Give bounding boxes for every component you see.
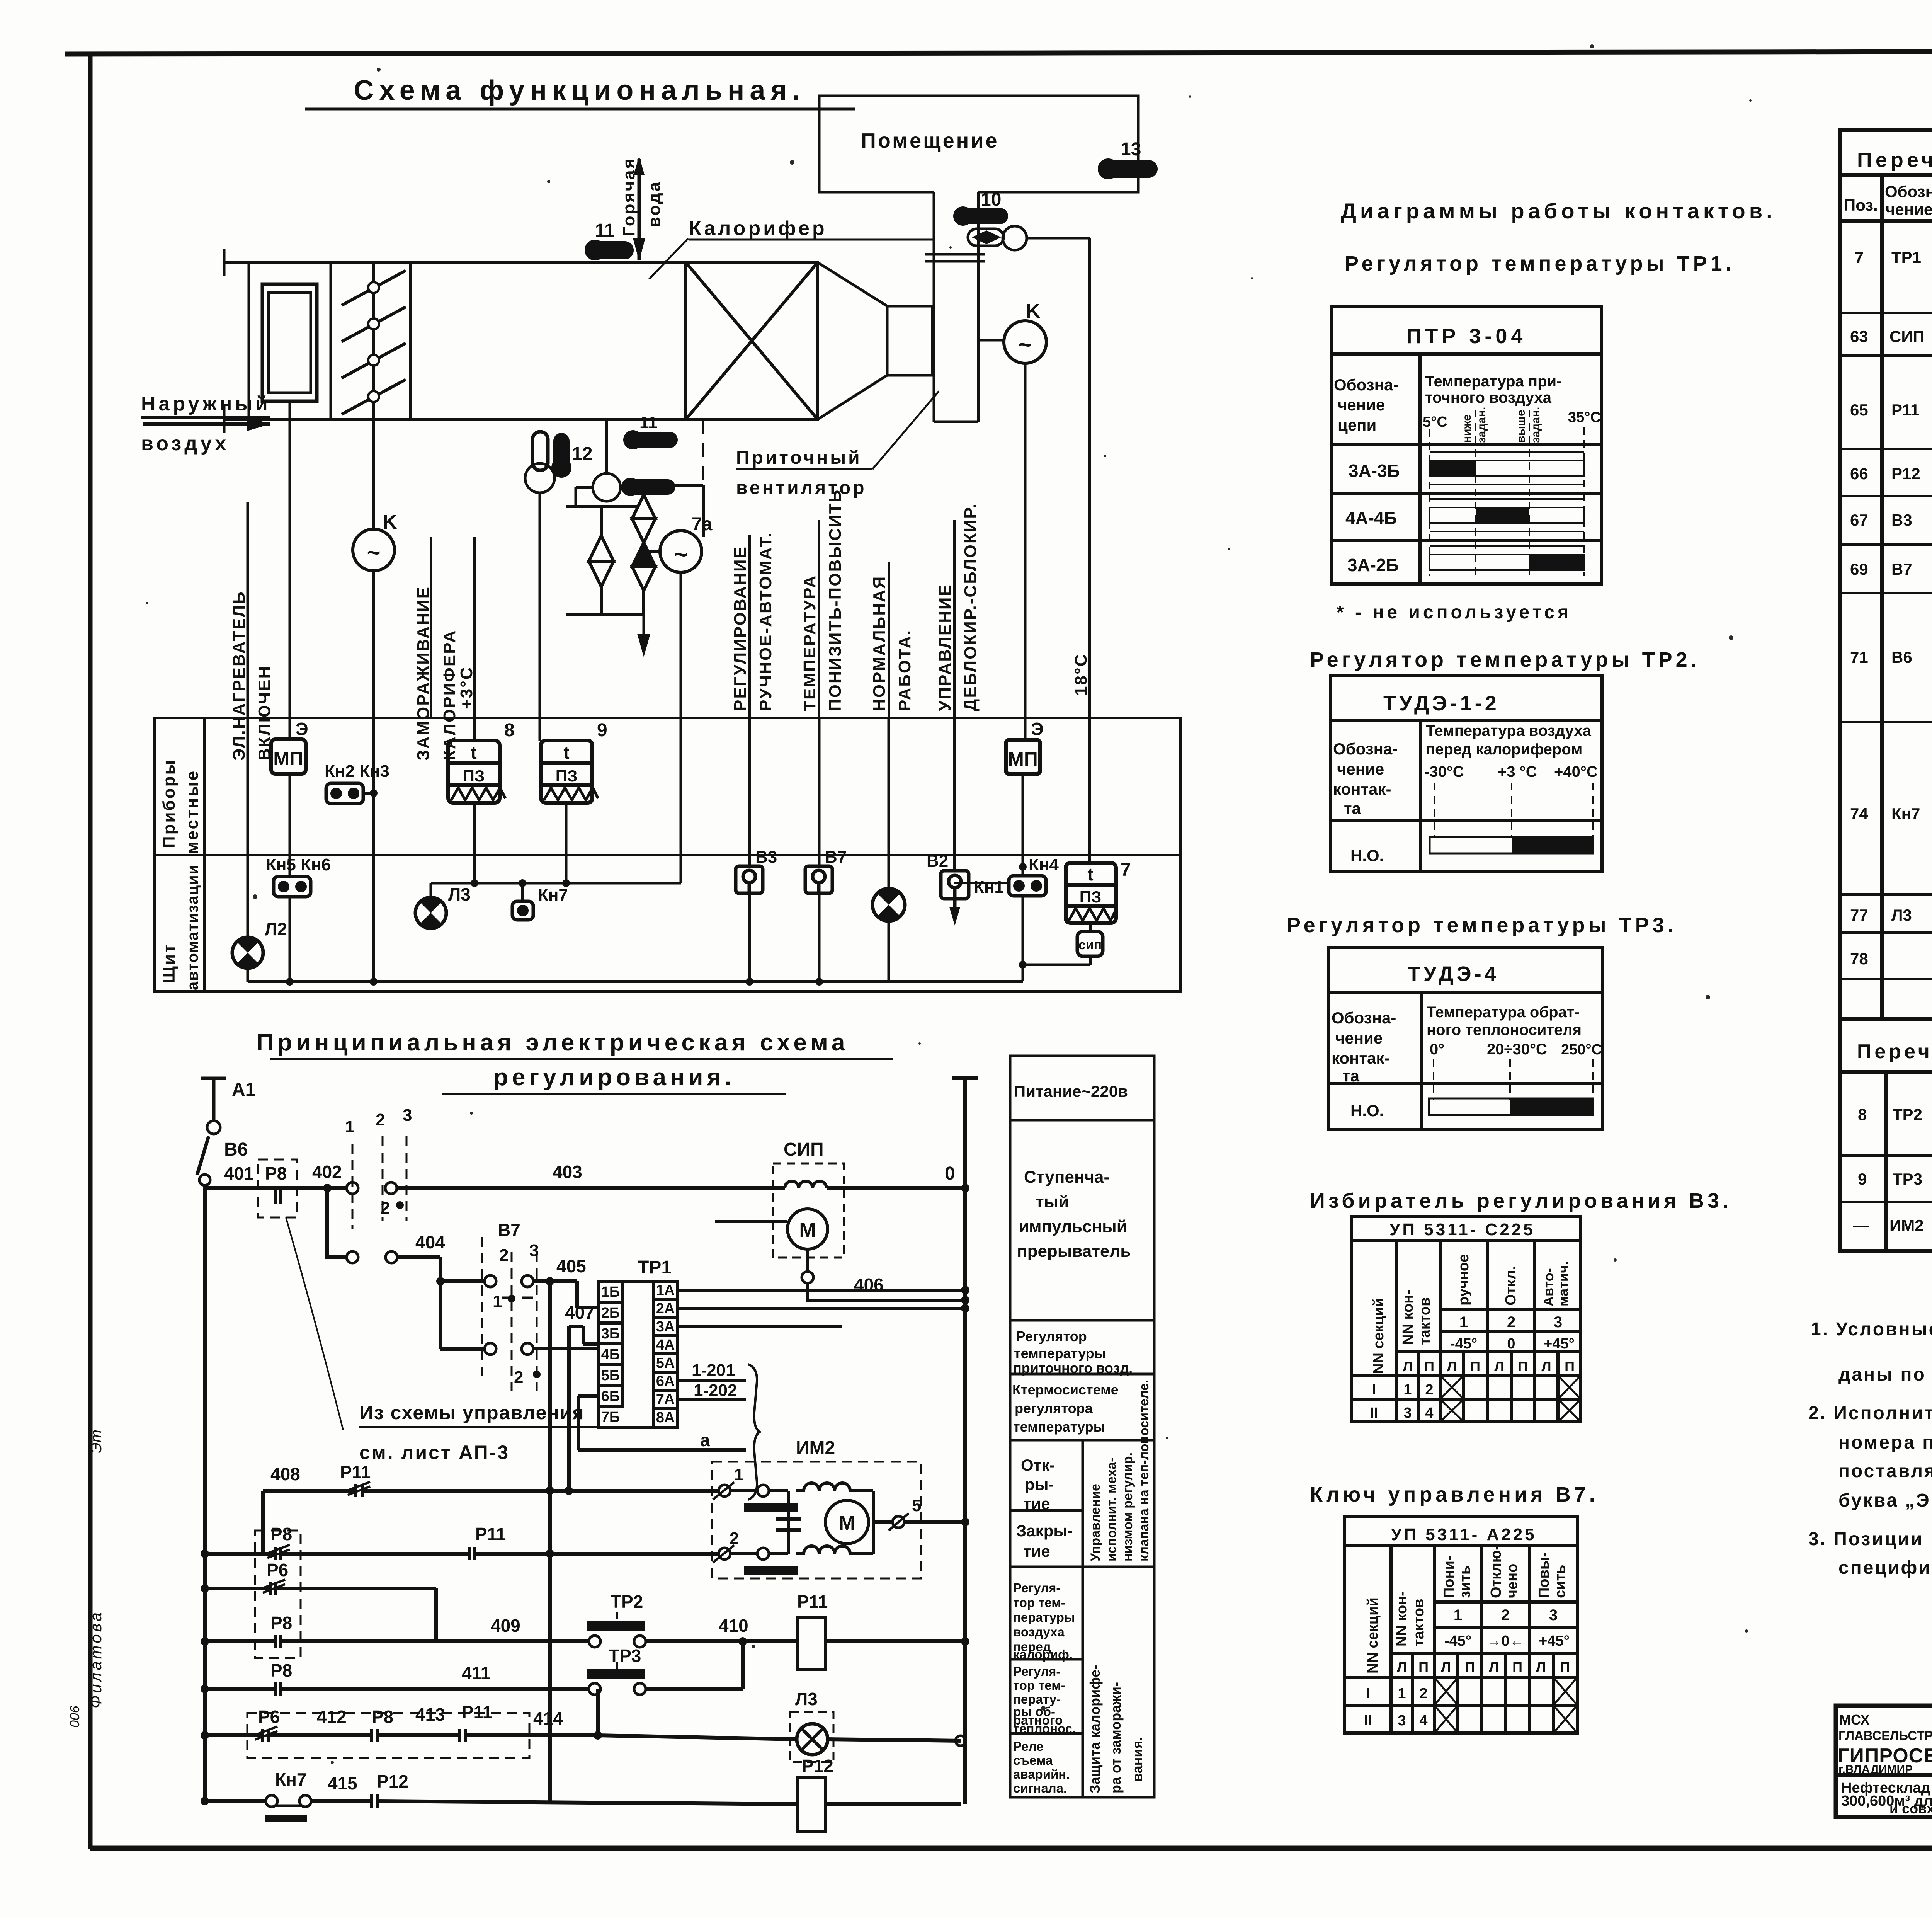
- PTR 3-04 table: [1331, 307, 1602, 584]
- fan motor K: [1004, 321, 1046, 363]
- Kn2 Kn3 button: [325, 762, 389, 804]
- svg-text:тактов: тактов: [1411, 1599, 1427, 1646]
- B3 second pair / 404 rung: [205, 1251, 600, 1355]
- svg-text:клапана на теп-лоносителе.: клапана на теп-лоносителе.: [1137, 1380, 1151, 1561]
- svg-text:Управление: Управление: [1088, 1484, 1103, 1561]
- svg-text:Повы-: Повы-: [1536, 1552, 1552, 1598]
- wire B7: [818, 718, 821, 866]
- svg-text:выше: выше: [1515, 410, 1527, 443]
- svg-text:МСХ: МСХ: [1839, 1712, 1870, 1728]
- svg-text:406: 406: [854, 1275, 884, 1295]
- svg-text:+45°: +45°: [1539, 1633, 1570, 1649]
- svg-text:6А: 6А: [656, 1373, 675, 1389]
- rung 401: [205, 1186, 346, 1190]
- svg-text:402: 402: [312, 1162, 342, 1182]
- svg-text:УП 5311- С225: УП 5311- С225: [1389, 1220, 1535, 1239]
- svg-text:П: П: [1518, 1359, 1528, 1374]
- svg-text:тактов: тактов: [1417, 1297, 1433, 1345]
- svg-text:Ступенча-: Ступенча-: [1024, 1168, 1109, 1187]
- svg-text:контак-: контак-: [1332, 1049, 1389, 1067]
- wire B3: [748, 718, 751, 866]
- svg-text:ручное: ручное: [1456, 1254, 1472, 1306]
- svg-text:Закры-: Закры-: [1016, 1522, 1073, 1540]
- svg-text:8: 8: [1858, 1105, 1867, 1124]
- svg-text:9: 9: [597, 720, 607, 741]
- svg-text:Кн2 Кн3: Кн2 Кн3: [325, 762, 389, 781]
- svg-text:В3: В3: [755, 848, 777, 867]
- svg-text:Схема функциональная.: Схема функциональная.: [354, 75, 806, 106]
- svg-text:П: П: [1470, 1359, 1480, 1374]
- svg-text:77: 77: [1850, 906, 1868, 924]
- svg-text:ПТР 3-04: ПТР 3-04: [1406, 325, 1527, 348]
- sensor 12 thermometer: [525, 432, 554, 741]
- svg-text:тие: тие: [1023, 1542, 1050, 1560]
- svg-text:регулирования.: регулирования.: [493, 1064, 735, 1091]
- svg-text:НОРМАЛЬНАЯ: НОРМАЛЬНАЯ: [870, 575, 889, 711]
- svg-text:РЕГУЛИРОВАНИЕ: РЕГУЛИРОВАНИЕ: [731, 546, 750, 711]
- svg-text:Калорифер: Калорифер: [689, 217, 827, 240]
- svg-text:матич.: матич.: [1555, 1261, 1571, 1306]
- svg-text:NN кон-: NN кон-: [1400, 1290, 1416, 1345]
- svg-text:63: 63: [1850, 327, 1868, 346]
- svg-text:67: 67: [1850, 511, 1868, 529]
- 7a circle: [660, 531, 702, 572]
- Kn5 Kn6 button: [266, 855, 331, 897]
- svg-text:Л: Л: [1536, 1659, 1546, 1675]
- svg-text:В6: В6: [224, 1139, 248, 1160]
- svg-text:П: П: [1465, 1659, 1475, 1675]
- svg-text:2: 2: [499, 1246, 509, 1265]
- svg-text:Л: Л: [1397, 1659, 1406, 1675]
- lamp L3 drop: [430, 883, 432, 898]
- TUDE-1-2 table: [1331, 675, 1602, 871]
- svg-text:11: 11: [595, 220, 615, 241]
- svg-text:перед калориферoм: перед калориферoм: [1426, 741, 1582, 758]
- svg-text:0: 0: [1507, 1336, 1515, 1352]
- svg-text:ЗАМОРАЖИВАНИЕ: ЗАМОРАЖИВАНИЕ: [414, 586, 433, 761]
- svg-text:4Б: 4Б: [601, 1347, 620, 1363]
- svg-text:П: П: [1512, 1659, 1522, 1675]
- svg-text:та: та: [1342, 1067, 1360, 1085]
- svg-text:В7: В7: [825, 848, 847, 867]
- svg-text:Откл.: Откл.: [1503, 1266, 1519, 1306]
- second table: [1840, 1019, 1932, 1251]
- svg-text:K: K: [1026, 300, 1041, 322]
- svg-text:сигнала.: сигнала.: [1013, 1781, 1067, 1795]
- section divider 1: [248, 262, 250, 419]
- wire sensor9: [565, 803, 568, 883]
- UP 5311-A225 table: [1345, 1516, 1577, 1733]
- svg-text:В2: В2: [927, 851, 948, 870]
- svg-text:Л: Л: [1441, 1659, 1451, 1675]
- svg-text:тор тем-: тор тем-: [1013, 1678, 1065, 1692]
- svg-text:Р12: Р12: [802, 1756, 833, 1776]
- UP 5311-C225 table: [1352, 1217, 1581, 1422]
- wire sensor8: [473, 537, 476, 741]
- valve group: [566, 485, 703, 638]
- svg-text:3: 3: [1398, 1713, 1406, 1729]
- svg-text:местные: местные: [183, 770, 202, 854]
- svg-text:В3: В3: [1891, 511, 1912, 529]
- svg-text:Температура обрат-: Температура обрат-: [1427, 1004, 1580, 1021]
- svg-text:Р8: Р8: [265, 1163, 287, 1183]
- svg-text:Р12: Р12: [377, 1771, 408, 1791]
- svg-text:Приборы: Приборы: [160, 759, 179, 848]
- svg-text:NN кон-: NN кон-: [1394, 1591, 1410, 1646]
- svg-text:ра от заморажи-: ра от заморажи-: [1108, 1682, 1124, 1793]
- svg-text:413: 413: [415, 1704, 445, 1725]
- svg-text:Л: Л: [1489, 1659, 1498, 1675]
- svg-text:ИМ2: ИМ2: [796, 1438, 835, 1458]
- B7 switch box: [805, 866, 832, 893]
- svg-text:зить: зить: [1457, 1566, 1473, 1598]
- svg-text:ТР3: ТР3: [1893, 1170, 1922, 1188]
- svg-text:Регуля-: Регуля-: [1013, 1664, 1060, 1679]
- svg-text:КАЛОРИФЕРА: КАЛОРИФЕРА: [440, 630, 459, 761]
- svg-text:Р6: Р6: [258, 1707, 280, 1727]
- svg-text:тор тем-: тор тем-: [1013, 1595, 1065, 1610]
- svg-text:3: 3: [1549, 1607, 1558, 1624]
- svg-text:9: 9: [1858, 1170, 1867, 1188]
- svg-text:Отк-: Отк-: [1021, 1456, 1055, 1474]
- svg-text:М: М: [838, 1512, 855, 1534]
- SIP small box: [1077, 931, 1103, 956]
- M circle: [825, 1500, 869, 1544]
- svg-text:I: I: [1366, 1685, 1370, 1702]
- svg-text:0°: 0°: [1430, 1041, 1444, 1058]
- svg-text:8: 8: [504, 720, 515, 741]
- svg-text:МП: МП: [1008, 748, 1038, 770]
- svg-text:II: II: [1370, 1405, 1378, 1421]
- label underline wires: [431, 520, 954, 718]
- svg-text:Из схемы управления: Из схемы управления: [359, 1402, 585, 1423]
- svg-text:П: П: [1565, 1359, 1575, 1374]
- TUDE-4 table: [1329, 947, 1602, 1130]
- damper with blades: [342, 262, 406, 529]
- svg-text:Н.О.: Н.О.: [1350, 846, 1384, 865]
- svg-text:NN секций: NN секций: [1371, 1298, 1387, 1374]
- svg-text:-30°С: -30°С: [1424, 763, 1464, 780]
- svg-text:Регулятор температуры ТР3.: Регулятор температуры ТР3.: [1287, 914, 1677, 937]
- svg-text:3: 3: [1403, 1405, 1412, 1421]
- svg-text:температуры: температуры: [1014, 1345, 1106, 1361]
- svg-text:температуры: температуры: [1013, 1419, 1105, 1435]
- svg-text:В6: В6: [1891, 648, 1912, 666]
- section divider 2: [330, 262, 332, 419]
- rung 408: [263, 1482, 719, 1554]
- sensor 11 bottom + capillary to valves: [624, 432, 678, 448]
- rung P6 412 P8 413 P11 414 (4490): [205, 1689, 961, 1742]
- svg-text:Кн7: Кн7: [538, 885, 568, 904]
- svg-text:409: 409: [491, 1616, 520, 1636]
- svg-text:Принципиальная электрическая: Принципиальная электрическая схема: [256, 1029, 849, 1056]
- svg-text:5Б: 5Б: [601, 1367, 620, 1384]
- svg-text:407: 407: [565, 1302, 595, 1323]
- chart bars row1: [1430, 461, 1584, 570]
- svg-text:1: 1: [1454, 1607, 1462, 1624]
- svg-text:Кн1: Кн1: [974, 878, 1004, 897]
- svg-text:Регуля-: Регуля-: [1013, 1581, 1060, 1595]
- svg-text:П: П: [1560, 1659, 1570, 1675]
- svg-text:калориф.: калориф.: [1013, 1647, 1073, 1662]
- svg-text:ДЕБЛОКИР.-СБЛОКИР.: ДЕБЛОКИР.-СБЛОКИР.: [961, 503, 980, 711]
- svg-text:Л2: Л2: [265, 919, 287, 939]
- svg-text:Отклю-: Отклю-: [1488, 1545, 1504, 1598]
- frame top border: [65, 51, 1932, 54]
- Kn1 Kn4 button: [974, 855, 1059, 897]
- svg-text:Поз.: Поз.: [1844, 196, 1878, 214]
- svg-text:Щит: Щит: [160, 943, 179, 984]
- lamp L3 schematic: [790, 1689, 833, 1762]
- t/P3 box 9: [541, 741, 598, 803]
- horizontal connector row2: [431, 882, 681, 885]
- svg-text:точного воздуха: точного воздуха: [1425, 389, 1552, 406]
- svg-text:П: П: [1418, 1659, 1429, 1675]
- rung Kn7 415 P12 (4660): [205, 1794, 961, 1822]
- svg-text:Л3: Л3: [448, 884, 471, 904]
- TP1 right wires: [578, 1290, 965, 1450]
- svg-text:Р8: Р8: [270, 1660, 292, 1680]
- fan channel: [933, 192, 935, 422]
- svg-text:~: ~: [674, 541, 687, 567]
- svg-text:~: ~: [1018, 332, 1032, 358]
- outside air arrow: [143, 422, 270, 426]
- svg-text:408: 408: [270, 1464, 300, 1484]
- svg-text:чение: чение: [1338, 396, 1385, 414]
- svg-text:1. Условные изображения приб: 1. Условные изображения приборов на функ…: [1811, 1319, 1932, 1340]
- svg-text:t: t: [563, 742, 569, 763]
- svg-text:3: 3: [403, 1106, 412, 1125]
- MP box left: [271, 739, 306, 774]
- svg-text:вода: вода: [645, 180, 664, 227]
- svg-text:12: 12: [572, 444, 592, 464]
- svg-text:та: та: [1344, 799, 1361, 817]
- svg-text:вентилятор: вентилятор: [736, 478, 867, 498]
- svg-text:t: t: [471, 742, 476, 763]
- svg-text:Р12: Р12: [1891, 465, 1920, 483]
- svg-text:Обозна-: Обозна-: [1885, 182, 1932, 201]
- svg-text:403: 403: [553, 1162, 582, 1182]
- svg-text:Приточный: Приточный: [736, 448, 862, 468]
- TP1 block: [599, 1281, 677, 1428]
- svg-text:2. Исполнительный механизм и а: 2. Исполнительный механизм и аппаратура,…: [1808, 1403, 1932, 1423]
- svg-text:ТУДЭ-1-2: ТУДЭ-1-2: [1383, 692, 1500, 715]
- svg-text:1-201: 1-201: [692, 1361, 735, 1380]
- svg-text:78: 78: [1850, 950, 1868, 968]
- lamp normal work: [872, 888, 905, 921]
- svg-text:3Б: 3Б: [601, 1326, 620, 1342]
- svg-text:регулятора: регулятора: [1015, 1400, 1093, 1416]
- svg-text:Температура при-: Температура при-: [1425, 373, 1561, 390]
- duct bottom line: [224, 418, 818, 421]
- svg-text:Защита калорифе-: Защита калорифе-: [1087, 1665, 1103, 1793]
- P11 coil relay: [797, 1618, 826, 1669]
- junction dots: [286, 789, 1027, 986]
- svg-text:Наружный: Наружный: [141, 393, 271, 415]
- duct left end ticks: [223, 249, 226, 276]
- svg-text:тый: тый: [1036, 1192, 1069, 1211]
- hot water pipe: [638, 159, 641, 260]
- svg-text:Филатова: Филатова: [87, 1610, 105, 1708]
- svg-text:2: 2: [1419, 1685, 1427, 1702]
- svg-text:Перечень аппаратуры и прибо: Перечень аппаратуры и приборов,установле…: [1857, 1040, 1932, 1063]
- svg-text:66: 66: [1850, 465, 1868, 483]
- svg-text:+3°С: +3°С: [457, 666, 476, 709]
- heater rect: [262, 284, 317, 401]
- svg-text:Температура воздуха: Температура воздуха: [1426, 722, 1592, 739]
- svg-text:Диаграммы работы контактов.: Диаграммы работы контактов.: [1341, 199, 1776, 223]
- svg-text:71: 71: [1850, 648, 1868, 666]
- svg-text:М: М: [799, 1219, 816, 1241]
- t/P3 box 8: [448, 741, 505, 803]
- sensor 11 blob top: [586, 241, 634, 259]
- svg-text:СИП: СИП: [1889, 327, 1925, 346]
- P12 coil relay: [797, 1777, 826, 1831]
- svg-text:11: 11: [639, 413, 658, 432]
- svg-text:5°С: 5°С: [1423, 414, 1447, 430]
- wire lamp normal: [888, 718, 890, 888]
- svg-text:чение: чение: [1886, 200, 1932, 218]
- svg-text:250°С: 250°С: [1561, 1042, 1602, 1058]
- svg-text:006: 006: [68, 1706, 82, 1728]
- svg-text:МП: МП: [273, 748, 303, 770]
- svg-text:П: П: [1424, 1359, 1434, 1374]
- svg-text:3: 3: [1554, 1314, 1562, 1331]
- svg-text:3А-3Б: 3А-3Б: [1349, 461, 1400, 481]
- svg-text:18°С: 18°С: [1071, 653, 1090, 696]
- damper actuator at fan top: [968, 226, 1090, 863]
- lamp L3 panel: [415, 883, 471, 928]
- flange marks: [925, 253, 985, 256]
- svg-text:2: 2: [1507, 1314, 1515, 1331]
- svg-text:1: 1: [1459, 1314, 1468, 1331]
- svg-text:+45°: +45°: [1544, 1336, 1575, 1352]
- svg-text:2: 2: [514, 1368, 523, 1387]
- B3 switch box: [736, 866, 763, 893]
- 407 rung: [550, 1281, 600, 1801]
- svg-text:1Б: 1Б: [601, 1284, 620, 1300]
- svg-text:а: а: [700, 1430, 710, 1450]
- svg-text:* - не используется: * - не используется: [1337, 602, 1571, 623]
- damper motor K: [353, 529, 395, 571]
- lamp L2: [232, 919, 287, 968]
- wire MP right down: [1022, 774, 1024, 981]
- svg-text:10: 10: [981, 189, 1001, 210]
- svg-text:65: 65: [1850, 401, 1868, 419]
- svg-text:5: 5: [912, 1496, 921, 1515]
- rung P8 409 TP2 410 (4247): [205, 1621, 965, 1648]
- svg-text:Перечень аппаратуры,установле: Перечень аппаратуры,установленной на щит…: [1857, 148, 1932, 172]
- svg-text:РАБОТА.: РАБОТА.: [895, 629, 914, 711]
- svg-text:3А: 3А: [656, 1319, 675, 1335]
- coils: [796, 1483, 858, 1491]
- svg-text:тие: тие: [1023, 1495, 1050, 1513]
- vertical signal wires: [248, 502, 1090, 982]
- svg-text:Р8: Р8: [270, 1524, 292, 1544]
- svg-text:г.ВЛАДИМИР: г.ВЛАДИМИР: [1838, 1763, 1913, 1776]
- svg-text:см. лист АП-3: см. лист АП-3: [359, 1442, 510, 1463]
- svg-text:чение: чение: [1335, 1029, 1383, 1047]
- svg-text:4: 4: [1419, 1713, 1427, 1729]
- svg-text:404: 404: [415, 1232, 445, 1252]
- svg-text:Обозна-: Обозна-: [1332, 1009, 1396, 1027]
- svg-text:Л3: Л3: [1891, 906, 1912, 924]
- svg-text:ПОНИЗИТЬ-ПОВЫСИТЬ: ПОНИЗИТЬ-ПОВЫСИТЬ: [826, 489, 845, 711]
- svg-text:Р8: Р8: [270, 1613, 292, 1633]
- svg-text:Ключ управления В7.: Ключ управления В7.: [1310, 1483, 1599, 1506]
- svg-text:1: 1: [345, 1117, 354, 1136]
- svg-text:414: 414: [533, 1708, 563, 1728]
- wire heater-MP line: [289, 739, 291, 982]
- svg-text:контак-: контак-: [1333, 780, 1391, 798]
- rotated signal labels: [230, 489, 1090, 761]
- rung P6 (4110): [205, 1580, 436, 1641]
- svg-text:ниже: ниже: [1461, 414, 1473, 443]
- svg-text:69: 69: [1850, 560, 1868, 578]
- svg-text:вания.: вания.: [1129, 1737, 1145, 1782]
- svg-text:20÷30°С: 20÷30°С: [1487, 1041, 1547, 1058]
- svg-text:415: 415: [328, 1773, 357, 1793]
- rung P8 411 TP3 (4370): [205, 1641, 743, 1696]
- svg-text:~: ~: [367, 540, 380, 565]
- svg-text:1А: 1А: [656, 1282, 675, 1299]
- svg-text:Избиратель регулирования В3.: Избиратель регулирования В3.: [1310, 1189, 1732, 1212]
- svg-text:Р11: Р11: [797, 1592, 828, 1612]
- A1 terminal: [197, 1078, 226, 1188]
- B2 switch box: [941, 871, 969, 926]
- svg-text:7а: 7а: [692, 514, 713, 535]
- svg-text:3. Позиции приборов и элект: 3. Позиции приборов и электроаппаратуры …: [1808, 1529, 1932, 1549]
- svg-text:2А: 2А: [656, 1301, 675, 1317]
- svg-text:2Б: 2Б: [601, 1305, 620, 1321]
- sensor 13: [1100, 160, 1158, 178]
- svg-text:ГЛАВСЕЛЬСТРОЙПРОЕКТ: ГЛАВСЕЛЬСТРОЙПРОЕКТ: [1838, 1728, 1932, 1743]
- svg-text:буква „Э”-по проекту силово: буква „Э”-по проекту силового электрообо…: [1838, 1490, 1932, 1511]
- svg-text:задан.: задан.: [1529, 407, 1542, 443]
- svg-text:ТР2: ТР2: [1893, 1105, 1922, 1124]
- wire B2: [953, 718, 956, 871]
- svg-text:съема: съема: [1013, 1753, 1053, 1767]
- svg-text:цепи: цепи: [1338, 416, 1376, 434]
- svg-text:5А: 5А: [656, 1355, 675, 1371]
- svg-text:ры-: ры-: [1025, 1475, 1054, 1493]
- svg-text:УПРАВЛЕНИЕ: УПРАВЛЕНИЕ: [935, 584, 954, 711]
- svg-text:7А: 7А: [656, 1391, 675, 1408]
- svg-text:+40°С: +40°С: [1554, 763, 1598, 780]
- svg-text:3А-2Б: 3А-2Б: [1347, 555, 1399, 575]
- svg-text:74: 74: [1850, 805, 1868, 823]
- svg-text:7: 7: [1121, 860, 1131, 880]
- svg-text:чено: чено: [1504, 1564, 1520, 1598]
- duct top line: [224, 261, 818, 264]
- svg-text:ИМ2: ИМ2: [1889, 1216, 1924, 1234]
- svg-text:2: 2: [1501, 1607, 1510, 1624]
- SIP block schematic: [715, 1139, 965, 1310]
- svg-text:ПЗ: ПЗ: [463, 767, 485, 785]
- svg-text:Горячая: Горячая: [619, 157, 638, 237]
- Kn7 button small: [512, 885, 568, 920]
- svg-text:8А: 8А: [656, 1410, 675, 1426]
- svg-text:K: K: [383, 511, 397, 533]
- MP box right: [1006, 740, 1040, 774]
- svg-text:Реле: Реле: [1013, 1739, 1043, 1754]
- svg-text:ТУДЭ-4: ТУДЭ-4: [1408, 962, 1499, 986]
- svg-text:Обозна-: Обозна-: [1334, 376, 1398, 394]
- svg-text:Л: Л: [1447, 1359, 1456, 1374]
- svg-text:II: II: [1364, 1713, 1372, 1729]
- svg-text:ТР1: ТР1: [1891, 248, 1921, 266]
- svg-text:ЭЛ.НАГРЕВАТЕЛЬ: ЭЛ.НАГРЕВАТЕЛЬ: [230, 591, 248, 761]
